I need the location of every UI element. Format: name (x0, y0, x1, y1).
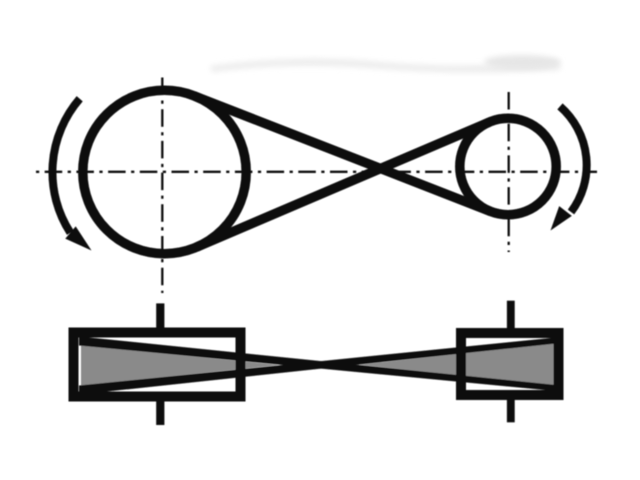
horizontal centerline (36, 171, 597, 173)
left pulley side-view rectangle (74, 333, 241, 397)
small pulley circle (460, 118, 556, 214)
left shaft upper stub (156, 303, 164, 333)
big pulley circle (83, 90, 246, 253)
faint smudge artifact (210, 59, 560, 73)
belt side-view gray right wedge (359, 343, 554, 385)
right shaft lower stub (507, 395, 515, 422)
right shaft upper stub (507, 301, 515, 334)
left rotation arrow arc (52, 99, 79, 233)
belt side-view upper-left to lower-right edge (79, 337, 556, 392)
vertical centerline left pulley (161, 78, 163, 294)
left shaft lower stub (156, 396, 164, 425)
belt side-view gray left wedge (81, 346, 280, 386)
faint smudge darker patch (484, 55, 560, 69)
belt lower tangent line (197, 122, 490, 247)
vertical centerline right pulley (508, 92, 510, 252)
right rotation arrow arc (560, 106, 587, 212)
right pulley side-view rectangle (461, 333, 559, 395)
belt side-view lower-left to upper-right edge (79, 338, 556, 395)
left rotation arrowhead (65, 226, 91, 250)
belt upper tangent line (194, 96, 490, 211)
right rotation arrowhead (551, 206, 572, 230)
